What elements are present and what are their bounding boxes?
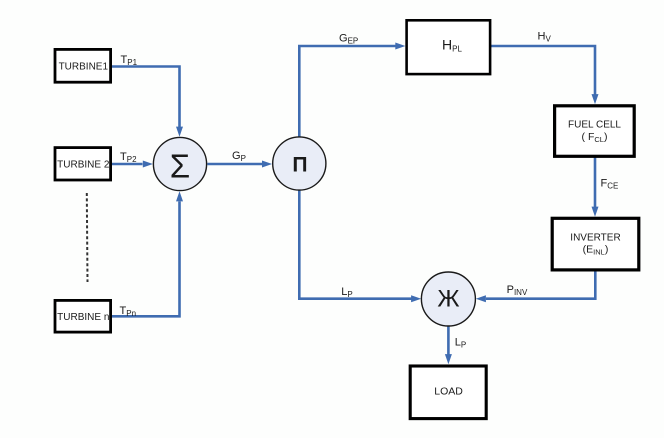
svg-text:FUEL CELL: FUEL CELL	[568, 119, 621, 130]
svg-text:Ж: Ж	[437, 285, 459, 312]
svg-text:TURBINE 2: TURBINE 2	[57, 160, 110, 171]
svg-text:INVERTER: INVERTER	[570, 232, 620, 243]
svg-text:Π: Π	[292, 154, 307, 177]
svg-text:LOAD: LOAD	[434, 386, 463, 398]
svg-text:TURBINE1: TURBINE1	[59, 61, 109, 72]
svg-text:TURBINE n: TURBINE n	[57, 312, 109, 323]
svg-text:Σ: Σ	[170, 148, 190, 185]
